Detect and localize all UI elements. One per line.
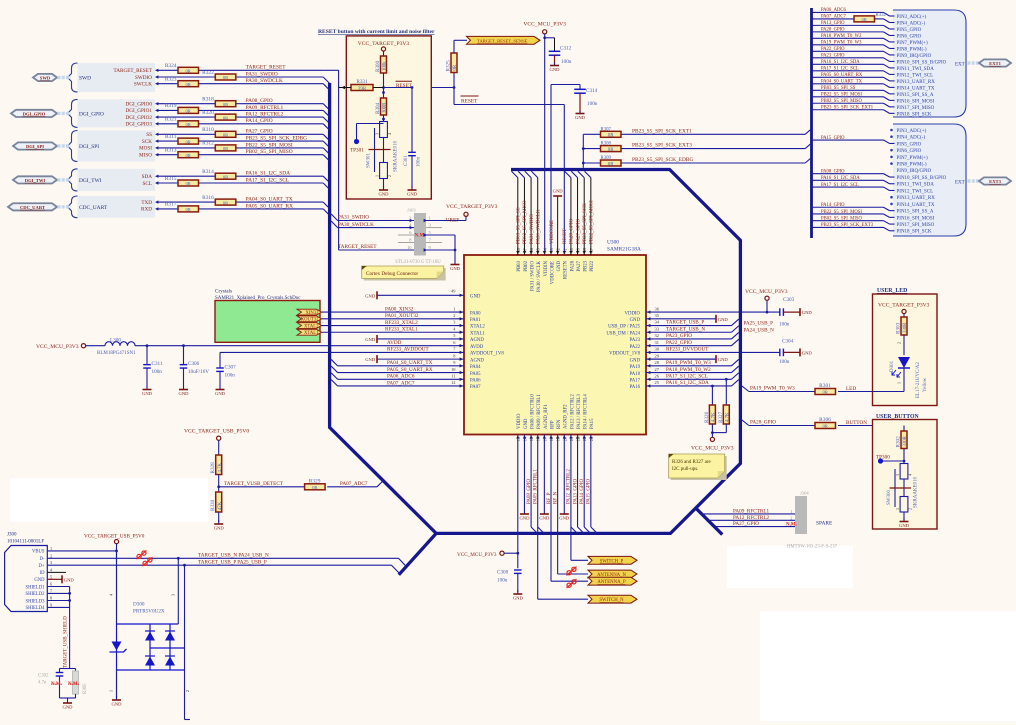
svg-text:RFP: RFP [550, 420, 555, 429]
bus entry [323, 124, 329, 130]
svg-text:TARGET_USB_N: TARGET_USB_N [666, 326, 705, 332]
svg-text:100k: 100k [383, 61, 388, 71]
svg-text:HMTSW-103-23-F-S-237: HMTSW-103-23-F-S-237 [787, 545, 838, 550]
svg-text:AVDD: AVDD [470, 345, 484, 350]
wire EXT1 PA17_S1_I2C_SCL [812, 71, 895, 75]
svg-text:SHIELD2: SHIELD2 [25, 592, 45, 597]
svg-text:PB02_S5_SPI_MISO: PB02_S5_SPI_MISO [821, 99, 863, 104]
svg-text:GND: GND [64, 577, 75, 582]
mcu top pin 42 GND [556, 248, 562, 271]
svg-text:TARGET_RESET: TARGET_RESET [338, 244, 377, 250]
wire R304 to SW301 [382, 115, 385, 122]
resistor R316 [202, 195, 236, 205]
svg-text:PIN8_PWM(-): PIN8_PWM(-) [897, 163, 927, 168]
mcu left pin 8 AGND [453, 353, 484, 363]
svg-text:GND: GND [365, 337, 376, 342]
connector J303 [395, 208, 441, 265]
svg-text:R318: R318 [202, 97, 214, 103]
svg-text:C306: C306 [188, 361, 200, 367]
svg-text:PA19_PWM_T0_W3: PA19_PWM_T0_W3 [666, 360, 711, 366]
port tag EXT1 [979, 59, 1011, 66]
svg-text:XTAL2: XTAL2 [304, 324, 319, 329]
differential pair marker [567, 567, 577, 576]
svg-text:PA13 / RFCTRL3: PA13 / RFCTRL3 [577, 394, 582, 429]
wire R303 to led [897, 335, 905, 355]
svg-text:R310: R310 [202, 127, 214, 133]
svg-text:PIN4_ADC(-): PIN4_ADC(-) [897, 21, 926, 26]
svg-text:ID: ID [40, 571, 46, 576]
svg-text:0R: 0R [862, 17, 868, 22]
svg-text:USB_DP / PA25: USB_DP / PA25 [608, 325, 641, 330]
svg-text:PA22: PA22 [630, 345, 641, 350]
ground [365, 355, 464, 363]
wire mcu top pin 38 to bus [578, 171, 584, 255]
svg-text:R331: R331 [356, 79, 368, 85]
svg-text:SAMR21G18A: SAMR21G18A [607, 247, 641, 253]
port tag SWD [33, 74, 57, 81]
svg-text:PA07_ADC7: PA07_ADC7 [340, 481, 368, 487]
svg-text:8: 8 [50, 596, 52, 601]
ground [783, 308, 812, 316]
wire SCK fan vertical [582, 134, 585, 168]
sheet entry panel DGI_GPIO [68, 99, 156, 127]
J300 pin 4 ID [40, 567, 53, 576]
mcu bottom pin 20 AGND_RF2 [562, 404, 568, 441]
wire EXT1 PA13_GPIO [812, 25, 895, 29]
svg-text:GND: GND [214, 526, 225, 531]
svg-text:D301: D301 [890, 360, 895, 372]
mcu right pin 35 GND [630, 313, 660, 323]
mcu top pin 44 VDDIN [542, 247, 548, 276]
svg-text:PA08_GPIO: PA08_GPIO [527, 479, 532, 504]
ground [513, 590, 524, 601]
svg-text:PA09_RFCTRL1: PA09_RFCTRL1 [246, 105, 284, 111]
svg-text:TARGET_USB_P: TARGET_USB_P [666, 320, 704, 326]
capacitor C311 [143, 346, 163, 387]
bus entry [323, 202, 329, 208]
wire VREF [424, 217, 466, 224]
no-connect bullet [890, 162, 893, 165]
power VCC_TARGET_USB_P5V0 usb [84, 533, 145, 551]
svg-text:R321: R321 [165, 117, 177, 123]
svg-text:4.7K: 4.7K [712, 412, 717, 422]
mcu bottom pin 17 AGND_RF1 [542, 404, 548, 441]
svg-text:EXT1: EXT1 [989, 61, 1001, 66]
mcu right pin 28 PA19 [630, 360, 660, 370]
svg-text:PA17_S1_I2C_SCL: PA17_S1_I2C_SCL [246, 177, 290, 183]
svg-text:2: 2 [790, 515, 792, 520]
svg-text:PA09 / RFCTRL1: PA09 / RFCTRL1 [537, 394, 542, 429]
svg-text:0R: 0R [186, 69, 192, 74]
svg-text:PA14 / RFCTRL4: PA14 / RFCTRL4 [584, 394, 589, 429]
svg-text:PA18_PWM_T0_W2: PA18_PWM_T0_W2 [666, 367, 711, 373]
mcu bottom pin 14 GND [522, 418, 528, 441]
resistor R302 [896, 431, 909, 449]
svg-text:C312: C312 [560, 46, 572, 52]
svg-text:RESET: RESET [396, 83, 413, 89]
wire vcc to R303 [903, 314, 905, 317]
stub ID [47, 571, 66, 573]
wire pin19 RFN to ANTENNA_N [558, 435, 588, 575]
svg-text:PA27_GPIO: PA27_GPIO [733, 521, 759, 527]
ground [646, 355, 728, 363]
J300 pin 5 GND [34, 574, 52, 583]
svg-text:0R: 0R [608, 148, 615, 153]
svg-text:TARGET_USB_P PA25_USB_P: TARGET_USB_P PA25_USB_P [198, 560, 267, 566]
mcu left pin 7 AVDDOUT_1V8 [453, 347, 504, 357]
wire PA23 row32 [646, 332, 739, 339]
svg-text:AVDD: AVDD [387, 340, 402, 346]
svg-text:SCK: SCK [142, 139, 152, 145]
wire PB23_S5_SPI_SCK_EDBG [583, 158, 811, 164]
svg-text:D+: D+ [38, 564, 44, 569]
svg-text:R326 and R327 are: R326 and R327 are [672, 460, 712, 465]
svg-text:GND: GND [553, 189, 564, 194]
mcu left pin 11 PA06 [451, 373, 481, 383]
power VCC_MCU_P3V3 bottom [457, 551, 518, 558]
capacitor C303 [779, 297, 795, 328]
svg-text:U300: U300 [607, 240, 619, 246]
wire R300 to junction [382, 73, 385, 98]
svg-text:SWITCH_P: SWITCH_P [600, 559, 624, 564]
svg-text:R326: R326 [704, 411, 710, 423]
svg-text:PIN9_IRQ/GPIO: PIN9_IRQ/GPIO [897, 169, 932, 174]
power VCC_MCU_P3V3 [691, 437, 734, 451]
svg-text:0R: 0R [608, 162, 615, 167]
svg-text:TXD: TXD [141, 200, 152, 206]
wire VDDIN vertical [543, 34, 546, 255]
svg-text:STL21-0730 G TT-10U: STL21-0730 G TT-10U [395, 260, 441, 265]
svg-text:AGND_RF1: AGND_RF1 [544, 404, 549, 429]
mcu bottom pin 13 VDDIO [516, 413, 522, 441]
wire EXT1 PA28_GPIO [812, 32, 895, 36]
wire EXT3 PA17_S1_I2C_SCL [812, 187, 895, 190]
svg-text:RESET: RESET [461, 98, 478, 104]
svg-text:PA28: PA28 [570, 260, 575, 271]
svg-text:GND: GND [112, 702, 123, 707]
svg-text:PA07_ADC7: PA07_ADC7 [821, 15, 846, 20]
svg-text:12: 12 [451, 380, 455, 385]
wire TARGET_USB_P [47, 560, 400, 575]
svg-text:PA05_S0_UART_RX: PA05_S0_UART_RX [821, 73, 863, 78]
svg-text:2: 2 [409, 215, 411, 220]
wire PB22_S5_SPI_MOSI [155, 146, 323, 149]
svg-text:VCC_MCU_P3V3: VCC_MCU_P3V3 [36, 344, 79, 350]
svg-text:100n: 100n [779, 359, 790, 365]
svg-text:R319: R319 [165, 103, 177, 109]
svg-text:R308: R308 [601, 142, 612, 147]
svg-text:11: 11 [451, 373, 455, 378]
svg-text:PB22_S5_SPI_MOSI: PB22_S5_SPI_MOSI [590, 200, 595, 244]
svg-text:PIN3_ADC(+): PIN3_ADC(+) [897, 129, 927, 134]
wire PA31_SWDIO [155, 75, 323, 78]
svg-text:DGI_GPIO: DGI_GPIO [79, 111, 104, 117]
svg-text:DGI_TWI: DGI_TWI [79, 178, 102, 184]
mcu top pin 37 PB22 [589, 247, 595, 271]
svg-text:PA07_ADC7: PA07_ADC7 [387, 380, 415, 386]
svg-text:PA05_S0_UART_RX: PA05_S0_UART_RX [246, 203, 294, 209]
mcu right pin 27 PA18 [630, 367, 660, 377]
svg-text:PIN9_IRQ/GPIO: PIN9_IRQ/GPIO [897, 54, 932, 59]
svg-text:PA08 / RFCTRL0: PA08 / RFCTRL0 [530, 394, 535, 429]
note Cortex Debug Connector [362, 266, 446, 281]
svg-text:PA17_S1_I2C_SCL: PA17_S1_I2C_SCL [666, 373, 708, 379]
svg-text:PIN12_TWI_SCL: PIN12_TWI_SCL [897, 73, 934, 78]
resistor R321 [165, 117, 199, 127]
svg-text:PB23_S5_SPI_SCK_EDBG: PB23_S5_SPI_SCK_EDBG [246, 136, 308, 142]
svg-text:Yellow: Yellow [923, 377, 928, 392]
svg-text:GND: GND [513, 596, 524, 601]
svg-text:4.7n: 4.7n [38, 681, 47, 686]
svg-text:SDA: SDA [142, 174, 153, 180]
wire EXT1 PA23_GPIO [812, 58, 895, 62]
wire EXT1 PA05_S0_UART_RX [812, 77, 895, 81]
svg-text:R314: R314 [202, 169, 214, 175]
svg-text:PA16_S1_I2C_SDA: PA16_S1_I2C_SDA [821, 176, 860, 181]
capacitor C307 [216, 352, 236, 387]
wire EXT1 PA18_PWM_T0_W2 [812, 38, 895, 42]
mcu right pin 34 USB_DP / PA25 [608, 320, 660, 330]
resistor R328 [210, 455, 223, 475]
svg-text:PA15_GPIO: PA15_GPIO [821, 136, 845, 141]
svg-text:PA12_RFCTRL2: PA12_RFCTRL2 [733, 515, 770, 521]
svg-text:PA28_GPIO: PA28_GPIO [821, 28, 845, 33]
port tag DGI_SPI [13, 142, 57, 149]
switch SW300 [887, 464, 919, 513]
resistor R317 [165, 202, 199, 212]
svg-text:J303: J303 [407, 208, 416, 213]
svg-text:PA19_PWM_T0_W3: PA19_PWM_T0_W3 [750, 386, 795, 392]
svg-text:RF233_AVDDOUT: RF233_AVDDOUT [387, 347, 430, 353]
svg-text:PA12_RFCTRL2: PA12_RFCTRL2 [246, 112, 284, 118]
svg-text:2: 2 [453, 313, 455, 318]
bus stub spare [696, 508, 722, 534]
wire pin22 to bus [578, 435, 584, 534]
wire R302 to sw [903, 449, 906, 464]
resistor R331 [351, 79, 373, 92]
svg-text:XIN32: XIN32 [305, 311, 319, 316]
svg-text:PA18_PWM_T0_W2: PA18_PWM_T0_W2 [821, 34, 862, 39]
no-connect bullet [890, 196, 893, 199]
svg-text:R311: R311 [165, 134, 177, 140]
resistor R325 [446, 53, 459, 73]
svg-text:PIN4_ADC(-): PIN4_ADC(-) [897, 136, 926, 141]
wire EXT1 PB02_S5_SPI_MISO [812, 103, 895, 107]
ground [215, 387, 226, 396]
wire PA05_S0_UART_RX [331, 366, 464, 372]
ground [47, 575, 74, 583]
svg-text:RESETN: RESETN [564, 260, 569, 279]
svg-text:AGND: AGND [470, 338, 484, 343]
svg-text:RESET button with current limi: RESET button with current limit and nois… [318, 29, 435, 35]
svg-text:C308: C308 [497, 570, 509, 576]
svg-text:D-: D- [40, 557, 45, 562]
mcu right pin 25 PA16 [630, 380, 660, 390]
svg-text:SHIELD1: SHIELD1 [25, 585, 45, 590]
wire PA09_RFCTRL1 [155, 109, 323, 112]
svg-text:0R: 0R [186, 82, 192, 87]
wire RESET out of box [431, 73, 564, 105]
port tag DGI_TWI [13, 176, 57, 183]
svg-text:PA12_RFCTRL2: PA12_RFCTRL2 [567, 469, 572, 504]
svg-text:GND: GND [407, 192, 418, 197]
wire R327 lead [725, 379, 727, 405]
wire EXT3 PB02_S5_SPI_MISO [812, 221, 895, 224]
wire mcu top pin 48 to bus [512, 171, 518, 255]
resistor R300 [375, 56, 388, 73]
svg-text:C314: C314 [586, 88, 598, 94]
differential pair marker [143, 557, 153, 566]
ground [142, 387, 153, 396]
resistor R327 [718, 405, 731, 424]
wire TARGET_VUSB_DETECT [219, 481, 384, 487]
port link [58, 144, 71, 147]
svg-text:TARGET_RESET: TARGET_RESET [246, 65, 287, 71]
wire EXT1 PA04_S0_UART_TX [812, 84, 895, 88]
wire EXT1 PB22_S5_SPI_MOSI [812, 97, 895, 101]
ground [646, 315, 728, 323]
svg-text:C311: C311 [152, 361, 163, 367]
wire mcu top pin 40 to bus [565, 171, 571, 255]
capacitor C306 [180, 346, 210, 387]
wire LED net [740, 385, 872, 392]
resistor R313 [165, 148, 199, 158]
svg-text:GND: GND [718, 357, 729, 362]
svg-text:0R: 0R [823, 424, 829, 429]
harness EXT1 box [893, 10, 966, 117]
svg-text:R309: R309 [601, 156, 612, 161]
mcu top pin 47 PB02 [522, 247, 528, 271]
capacitor C304 [779, 338, 794, 365]
svg-text:PB03_S5_SPI_SS: PB03_S5_SPI_SS [821, 86, 856, 91]
bus ext [810, 8, 813, 238]
wire EXT3 PA15_GPIO [812, 140, 895, 143]
bus entry [323, 183, 329, 189]
svg-text:CDC_UART: CDC_UART [20, 205, 45, 210]
svg-text:0R: 0R [223, 75, 229, 80]
svg-text:EXT: EXT [955, 181, 965, 186]
power VCC_TARGET_P3V3 [878, 303, 930, 314]
connector J304 SPARE [786, 491, 838, 550]
sheet port XIN32 [297, 309, 322, 316]
svg-text:R300: R300 [375, 60, 381, 72]
resistor R314 [202, 169, 236, 179]
svg-text:R306: R306 [819, 417, 831, 423]
wire PA04_S0_UART_TX [331, 359, 464, 365]
wire SW301 to gnd [383, 179, 385, 189]
ground [407, 186, 418, 197]
wire TARGET_USB_N [47, 552, 405, 565]
ground [519, 435, 530, 521]
svg-text:3: 3 [895, 474, 900, 476]
svg-text:PIN17_SPI_MISO: PIN17_SPI_MISO [897, 106, 935, 111]
svg-text:R315: R315 [165, 176, 177, 182]
svg-text:PB02_S5_SPI_MISO: PB02_S5_SPI_MISO [246, 149, 293, 155]
net label nRESET [461, 96, 479, 104]
svg-text:1: 1 [897, 382, 902, 384]
svg-text:1: 1 [50, 546, 52, 551]
svg-text:0R: 0R [223, 200, 229, 205]
wire reset net inside box [384, 87, 413, 89]
svg-text:32: 32 [655, 333, 659, 338]
svg-text:C301: C301 [404, 155, 409, 166]
svg-text:PIN15_SPI_SS_A: PIN15_SPI_SS_A [897, 93, 934, 98]
svg-text:2: 2 [907, 508, 912, 510]
bus entry [323, 155, 329, 161]
bus entry [323, 176, 329, 182]
svg-text:Crystals: Crystals [215, 289, 232, 295]
svg-text:0R: 0R [223, 146, 229, 151]
svg-text:VDDIN: VDDIN [544, 260, 549, 276]
svg-text:RF_N: RF_N [553, 491, 558, 504]
svg-text:PA16_S1_I2C_SDA: PA16_S1_I2C_SDA [666, 380, 709, 386]
wire R326 lead [711, 386, 713, 405]
svg-text:GND: GND [802, 350, 813, 355]
ground [365, 335, 464, 343]
svg-text:R332: R332 [876, 13, 887, 18]
svg-text:PB23_S5_SPI_SCK_EXT3: PB23_S5_SPI_SCK_EXT3 [632, 143, 692, 149]
svg-text:VCC_MCU_P3V3: VCC_MCU_P3V3 [457, 552, 497, 558]
svg-text:I2C pull-ups.: I2C pull-ups. [672, 467, 698, 472]
svg-text:GND: GND [379, 192, 390, 197]
svg-text:TARGET_VUSB_DETECT: TARGET_VUSB_DETECT [224, 481, 284, 487]
svg-text:R307: R307 [601, 127, 612, 132]
wire PA07_ADC7 [331, 380, 464, 386]
svg-text:R303: R303 [896, 322, 902, 334]
wire sw to gnd [903, 512, 905, 520]
resistor R303 [896, 317, 909, 335]
box USER_LED [873, 288, 938, 406]
capacitor C308 [497, 570, 522, 593]
svg-text:31: 31 [655, 340, 659, 345]
svg-text:PA00: PA00 [470, 311, 481, 316]
svg-text:PIN3_ADC(+): PIN3_ADC(+) [897, 15, 927, 20]
svg-text:VDDCORE: VDDCORE [550, 261, 555, 284]
capacitor C301 [404, 88, 422, 189]
svg-text:1: 1 [453, 306, 455, 311]
wire R330 to gnd [218, 512, 220, 522]
svg-text:BLM18PG471SN1: BLM18PG471SN1 [97, 351, 136, 356]
svg-text:0R: 0R [186, 207, 192, 212]
mcu right pin 26 PA17 [630, 373, 660, 383]
mcu top pin 46 PA31 / SWDIO [529, 247, 535, 291]
svg-text:EXT: EXT [955, 63, 965, 68]
svg-text:PA04: PA04 [470, 365, 481, 370]
mcu left pin 5 AGND [453, 333, 484, 343]
capacitor C314 [551, 85, 598, 113]
svg-text:6: 6 [50, 582, 52, 587]
port link [58, 76, 71, 79]
wire AVDDOUT net [220, 351, 464, 353]
mcu bottom pin 18 RFP [549, 420, 555, 441]
svg-text:USB_DM / PA24: USB_DM / PA24 [606, 331, 640, 336]
svg-text:PIN10_SPI_SS_B/GPIO: PIN10_SPI_SS_B/GPIO [897, 60, 947, 65]
sheet port XTAL2 [297, 323, 322, 330]
svg-text:GND: GND [557, 260, 562, 271]
bus entry [323, 84, 329, 90]
svg-text:DGI_TWI: DGI_TWI [25, 178, 46, 183]
bus entry [323, 117, 329, 123]
wire PA12_RFCTRL2 [155, 115, 323, 118]
svg-text:TARGET_RESET_SENSE: TARGET_RESET_SENSE [477, 38, 528, 43]
mcu right pin 30 VDDOUT_1V8 [609, 347, 660, 357]
bus entry [323, 104, 329, 110]
svg-text:PA22_GPIO: PA22_GPIO [666, 340, 692, 346]
svg-text:SWCLK: SWCLK [134, 82, 152, 88]
svg-text:PA27_GPIO: PA27_GPIO [576, 219, 581, 244]
svg-text:2: 2 [387, 175, 392, 177]
svg-text:GND: GND [215, 391, 226, 396]
